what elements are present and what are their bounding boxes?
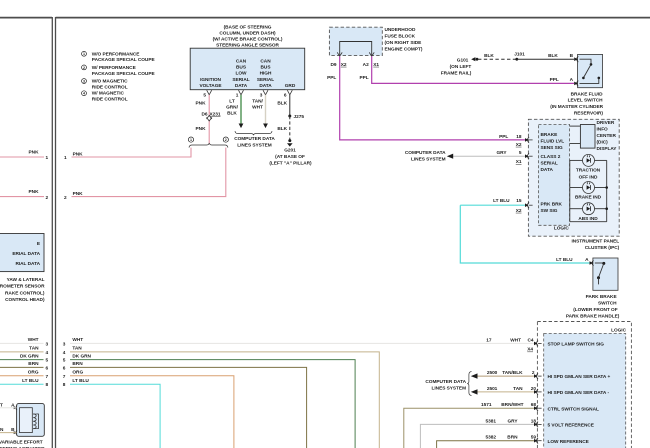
svg-text:J101: J101 [514,51,525,57]
svg-text:PARK BRAKE HANDLE): PARK BRAKE HANDLE) [566,313,620,319]
svg-text:(LEFT "A" PILLAR): (LEFT "A" PILLAR) [269,161,312,167]
svg-text:DATA: DATA [541,167,554,173]
svg-text:5381: 5381 [486,418,497,424]
wire PPL from D9 to IPC pin 18 [340,56,525,140]
svg-text:TAN: TAN [29,346,39,352]
svg-text:LT: LT [229,98,235,104]
svg-text:OFF IND: OFF IND [579,174,598,180]
svg-text:5: 5 [46,358,49,364]
svg-text:BRN/WHT: BRN/WHT [501,402,523,408]
svg-text:RIDE CONTROL: RIDE CONTROL [92,84,128,90]
abs indicator lamp [570,208,583,210]
svg-text:PPL: PPL [499,134,508,140]
svg-text:W/ PERFORMANCE: W/ PERFORMANCE [92,65,136,71]
svg-text:RESERVOIR): RESERVOIR) [574,111,604,117]
svg-text:SERIAL: SERIAL [541,161,558,167]
svg-text:LOGIC: LOGIC [554,226,569,232]
wire LT BLU ipc to park brake switch [460,205,589,263]
svg-text:RIDE CONTROL: RIDE CONTROL [92,96,128,102]
svg-text:ABS IND: ABS IND [578,216,598,222]
wire BRN/WHT ctrl switch signal [404,408,534,448]
svg-text:BRAKE: BRAKE [541,132,558,138]
svg-text:TAN/BLK: TAN/BLK [502,370,523,376]
svg-text:6: 6 [63,365,66,371]
svg-text:6: 6 [46,365,49,371]
option branch circles [188,137,193,142]
svg-text:BRN: BRN [507,435,518,441]
wire PNK branch 2 [72,148,226,197]
svg-text:(IN MASTER CYLINDER: (IN MASTER CYLINDER [550,104,603,110]
legend note 3 [82,79,129,91]
svg-text:PNK: PNK [196,101,207,107]
svg-text:COMPUTER DATA: COMPUTER DATA [425,379,466,385]
wire BLK dashed to ground [289,116,291,140]
svg-text:18: 18 [516,134,522,140]
svg-text:X2: X2 [516,142,522,148]
svg-text:FUSE BLOCK: FUSE BLOCK [385,34,416,40]
svg-text:2: 2 [225,138,227,142]
svg-text:2500: 2500 [487,370,498,376]
svg-text:DATA: DATA [259,83,272,89]
svg-text:CENTER: CENTER [597,133,617,139]
svg-text:1: 1 [83,52,85,56]
EBCM pin C4 connector [537,341,539,347]
svg-text:BRN: BRN [72,361,83,367]
variable effort steering actuator [17,404,45,437]
svg-text:INFO: INFO [597,126,609,132]
svg-text:1: 1 [46,155,49,161]
svg-text:COMPUTER DATA: COMPUTER DATA [405,150,446,156]
svg-text:PNK: PNK [29,189,40,195]
svg-text:COLUMN, UNDER DASH): COLUMN, UNDER DASH) [219,31,276,37]
switch pin A connector [577,81,579,87]
svg-text:FRAME RAIL): FRAME RAIL) [441,71,472,77]
svg-text:PPL: PPL [327,75,336,81]
svg-text:PACKAGE SPECIAL COUPE: PACKAGE SPECIAL COUPE [92,57,155,63]
svg-text:VOLTAGE: VOLTAGE [199,83,221,89]
svg-text:IGNITION: IGNITION [200,77,221,83]
svg-text:TAN: TAN [513,386,523,392]
svg-text:BRN: BRN [28,361,39,367]
svg-text:DRIVER: DRIVER [597,120,615,126]
svg-text:LOGIC: LOGIC [611,328,626,334]
svg-text:7: 7 [63,374,66,380]
svg-text:STOP LAMP SWITCH SIG: STOP LAMP SWITCH SIG [548,342,605,348]
svg-text:6: 6 [284,93,287,99]
IPC pin 5 connector + GRY computer data wire [453,155,525,157]
svg-text:DISPLAY: DISPLAY [597,146,618,152]
wire BLK J101 to switch pin B [517,58,574,60]
svg-text:2501: 2501 [487,386,498,392]
svg-text:(W/ ACTIVE BRAKE CONTROL): (W/ ACTIVE BRAKE CONTROL) [213,37,283,43]
svg-text:LT BLU: LT BLU [22,378,39,384]
svg-text:W/ MAGNETIC: W/ MAGNETIC [92,91,125,97]
svg-text:DATA: DATA [235,83,248,89]
svg-text:WHT: WHT [252,104,263,110]
svg-text:W/O MAGNETIC: W/O MAGNETIC [92,79,128,85]
svg-text:B: B [570,53,574,59]
svg-text:TRACTION: TRACTION [576,168,601,174]
svg-text:BRAKE IND: BRAKE IND [575,195,602,201]
svg-text:LOW: LOW [236,71,248,77]
svg-text:BUS: BUS [261,65,271,71]
svg-text:BLK: BLK [548,53,558,59]
steering angle sensor header [213,25,283,49]
svg-text:CAN: CAN [260,59,271,65]
actuator coil [38,414,40,429]
svg-text:WHT: WHT [28,337,39,343]
switch pin B connector [577,56,579,62]
svg-text:CAN: CAN [236,59,247,65]
wire GRY 5 volt reference [420,424,534,448]
svg-text:X1: X1 [516,159,522,165]
svg-text:DK GRN: DK GRN [72,353,91,359]
svg-text:1571: 1571 [481,402,492,408]
svg-text:(ON LEFT: (ON LEFT [450,64,472,70]
svg-text:(AT BASE OF: (AT BASE OF [275,154,305,160]
wire LT BLU to IPC pin 15 [460,204,525,206]
svg-text:UNDERHOOD: UNDERHOOD [385,27,416,33]
legend note 1 [82,51,155,63]
page border top line left page [0,17,52,19]
svg-text:1: 1 [190,138,192,142]
svg-text:PPL: PPL [360,75,369,81]
svg-text:DK GRN: DK GRN [20,353,39,359]
wire TAN/WHT CAN high vertical [265,95,267,124]
svg-text:A: A [585,257,589,263]
svg-text:A: A [570,77,574,83]
park brake switch [593,258,618,290]
svg-text:LT BLU: LT BLU [493,198,510,204]
svg-text:GRD: GRD [285,83,296,89]
svg-text:RIAL DATA: RIAL DATA [15,261,40,267]
lamp bus left [569,160,571,221]
instrument panel cluster outer box [528,119,619,236]
wire LT GRN/BLK CAN low vertical [240,95,242,124]
svg-text:PNK: PNK [29,150,40,156]
svg-text:4: 4 [83,92,85,96]
wire PNK ignition voltage vertical [208,95,210,116]
svg-text:3: 3 [83,79,85,83]
svg-text:PACKAGE SPECIAL COUPE: PACKAGE SPECIAL COUPE [92,71,155,77]
EBCM outer box [537,322,631,448]
switch internals [580,59,592,63]
ground G201 [288,139,291,142]
splice J275 [288,115,291,118]
svg-text:HI SPD GMLAN SER DATA +: HI SPD GMLAN SER DATA + [548,374,611,380]
wire PNK branch 1 [72,148,192,157]
svg-text:HI SPD GMLAN SER DATA -: HI SPD GMLAN SER DATA - [548,390,610,396]
svg-text:BLK: BLK [484,53,494,59]
svg-text:X231: X231 [210,111,221,117]
svg-text:HIGH: HIGH [260,71,272,77]
svg-text:GRY: GRY [507,418,518,424]
svg-text:3: 3 [260,93,263,99]
legend note 4 [82,91,128,103]
svg-text:5382: 5382 [486,435,497,441]
svg-text:2: 2 [83,66,85,70]
svg-text:3: 3 [46,341,49,347]
park brake switch internals [595,262,604,264]
lamp bottom rail [570,221,607,223]
svg-text:7: 7 [46,374,49,380]
svg-text:SERIAL: SERIAL [232,77,249,83]
branch over-brace [189,143,228,147]
svg-text:ORG: ORG [72,370,83,376]
wire TAN/BLK hi spd gmlan + [478,375,534,377]
wire BLK grd vertical [289,95,291,116]
svg-text:PRK BRK: PRK BRK [541,202,563,208]
svg-text:5: 5 [519,150,522,156]
wire BRN low reference [437,441,534,448]
svg-text:YAW & LATERAL: YAW & LATERAL [7,277,45,283]
svg-text:15: 15 [516,198,522,204]
svg-text:(BASE OF STEERING: (BASE OF STEERING [224,25,272,31]
svg-text:X2: X2 [516,208,522,214]
splice J101 [515,58,518,61]
svg-text:SERIAL: SERIAL [257,77,274,83]
svg-text:CTRL SWITCH SIGNAL: CTRL SWITCH SIGNAL [548,406,599,412]
svg-text:8: 8 [46,382,49,388]
svg-text:TAN/: TAN/ [252,98,263,104]
svg-text:BRAKE FLUID: BRAKE FLUID [571,91,603,97]
svg-text:SWITCH: SWITCH [598,301,617,307]
svg-text:(LOWER FRONT OF: (LOWER FRONT OF [573,307,618,313]
svg-text:LINES SYSTEM: LINES SYSTEM [432,386,467,392]
svg-text:5: 5 [63,358,66,364]
svg-text:W/O PERFORMANCE: W/O PERFORMANCE [92,51,140,57]
svg-text:5: 5 [203,93,206,99]
svg-text:ORG: ORG [28,370,39,376]
svg-text:ERIAL DATA: ERIAL DATA [12,251,40,257]
svg-text:BLK: BLK [227,111,237,117]
svg-text:C4: C4 [527,338,533,344]
DIC display box [580,125,595,149]
fuse block pin A2 connector [369,52,374,56]
IPC inner box [539,125,570,226]
page border top line main page [56,17,650,19]
svg-text:CLASS 2: CLASS 2 [541,154,561,160]
svg-text:G201: G201 [284,148,296,154]
svg-text:PNK: PNK [73,191,84,197]
svg-text:INSTRUMENT PANEL: INSTRUMENT PANEL [571,239,619,245]
svg-text:1: 1 [64,155,67,161]
svg-text:WHT: WHT [72,337,83,343]
svg-text:5 VOLT REFERENCE: 5 VOLT REFERENCE [548,423,594,429]
svg-text:RAKE CONTROL): RAKE CONTROL) [5,290,45,296]
svg-text:X2: X2 [341,62,347,68]
svg-text:E: E [37,241,40,247]
svg-text:GRN/: GRN/ [226,104,238,110]
traction off indicator lamp [570,159,583,161]
svg-text:A2: A2 [363,62,369,68]
svg-text:LEVEL SWITCH: LEVEL SWITCH [568,98,604,104]
svg-text:17: 17 [486,338,492,344]
svg-text:D9: D9 [330,62,336,68]
svg-text:D6: D6 [201,111,207,117]
wire PPL from A2 to brake fluid level switch [372,56,574,83]
computer data lines brace (under CAN arrows) [235,131,272,135]
svg-text:SW SIG: SW SIG [541,208,558,214]
svg-text:BLK: BLK [277,101,287,107]
wire TAN hi spd gmlan - [478,391,534,393]
svg-text:PARK BRAKE: PARK BRAKE [586,294,617,300]
svg-text:PPL: PPL [550,77,559,83]
svg-text:PNK: PNK [73,152,84,158]
svg-text:CLUSTER (IPC): CLUSTER (IPC) [585,245,620,251]
svg-text:GRY: GRY [496,150,507,156]
page divider double vertical line [51,17,53,448]
svg-text:(DIC): (DIC) [597,139,609,145]
steering angle sensor box [190,48,305,89]
svg-text:ENGINE COMPT): ENGINE COMPT) [385,46,423,52]
IPC pin 15 connector [528,202,530,208]
svg-text:BLK: BLK [277,126,287,132]
svg-text:FLUID LVL: FLUID LVL [541,139,565,145]
fuse block pin D9 connector [337,52,342,56]
svg-text:X1: X1 [373,62,379,68]
svg-text:LOW REFERENCE: LOW REFERENCE [548,439,589,445]
park brake pin A connector [592,260,594,266]
svg-text:8: 8 [63,382,66,388]
IPC pin 18 connector [528,137,530,143]
legend note 2 [82,65,155,77]
svg-text:LT BLU: LT BLU [556,257,573,263]
module box (cut off at left edge) [0,234,44,272]
svg-text:X4: X4 [527,347,533,353]
EBCM logic inner box [544,334,626,448]
brake fluid level switch [578,54,603,87]
svg-text:3: 3 [63,341,66,347]
svg-text:1: 1 [236,93,239,99]
svg-text:SENS SIG: SENS SIG [541,145,564,151]
svg-text:LINES SYSTEM: LINES SYSTEM [237,143,272,149]
lamp bus right [606,160,608,221]
svg-text:CONTROL HEAD): CONTROL HEAD) [5,297,45,303]
svg-text:LINES SYSTEM: LINES SYSTEM [411,157,446,163]
svg-text:LT BLU: LT BLU [72,378,89,384]
svg-text:TAN: TAN [72,346,82,352]
svg-text:VARIABLE EFFORT: VARIABLE EFFORT [0,440,43,446]
svg-text:2: 2 [64,195,67,201]
svg-text:(ON RIGHT SIDE: (ON RIGHT SIDE [385,40,422,46]
svg-text:ROMETER SENSOR: ROMETER SENSOR [0,284,45,290]
svg-text:COMPUTER DATA: COMPUTER DATA [234,136,275,142]
svg-text:4: 4 [63,350,66,356]
svg-text:2: 2 [46,195,49,201]
svg-text:PNK: PNK [196,126,207,132]
underhood fuse block [329,27,382,55]
svg-text:G101: G101 [457,58,469,64]
svg-text:BUS: BUS [236,65,246,71]
svg-text:WHT: WHT [510,338,521,344]
wire BLK dashed G101 to J101 [478,58,517,60]
svg-text:4: 4 [46,350,49,356]
svg-text:J275: J275 [294,114,305,120]
brake indicator lamp [570,187,583,189]
